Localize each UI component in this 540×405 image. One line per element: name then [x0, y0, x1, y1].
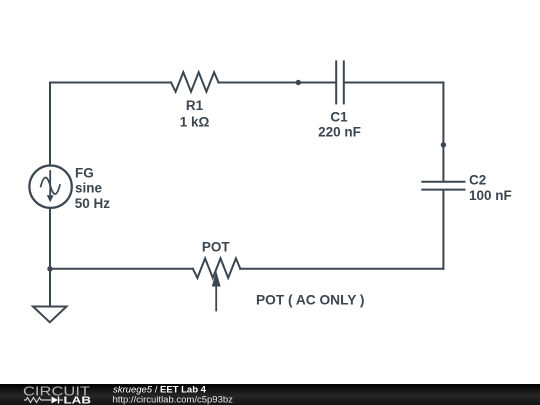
- svg-text:100 nF: 100 nF: [469, 188, 512, 203]
- svg-text:http://circuitlab.com/c5p93bz: http://circuitlab.com/c5p93bz: [113, 395, 234, 405]
- svg-text:C1: C1: [330, 110, 348, 125]
- svg-text:POT: POT: [202, 240, 231, 255]
- svg-text:R1: R1: [186, 98, 204, 113]
- svg-text:50 Hz: 50 Hz: [75, 196, 111, 211]
- svg-text:LAB: LAB: [64, 394, 92, 405]
- svg-text:sine: sine: [75, 180, 103, 195]
- svg-text:220 nF: 220 nF: [318, 125, 361, 140]
- svg-text:POT ( AC ONLY ): POT ( AC ONLY ): [256, 293, 365, 308]
- svg-text:FG: FG: [75, 166, 94, 181]
- svg-text:C2: C2: [469, 172, 486, 187]
- svg-text:1 kΩ: 1 kΩ: [180, 115, 210, 130]
